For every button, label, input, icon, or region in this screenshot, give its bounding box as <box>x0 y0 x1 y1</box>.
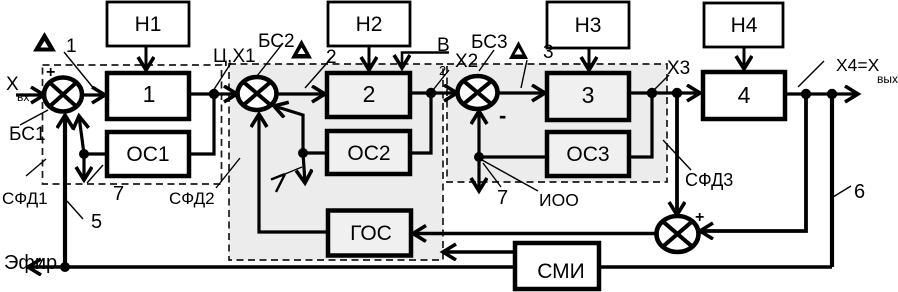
svg-text:2: 2 <box>363 81 376 107</box>
svg-text:1: 1 <box>66 36 77 57</box>
svg-text:Н3: Н3 <box>575 14 602 37</box>
svg-text:1: 1 <box>143 81 156 107</box>
svg-text:+: + <box>695 209 704 226</box>
svg-text:2: 2 <box>439 63 446 78</box>
svg-text:ОС1: ОС1 <box>126 143 169 166</box>
svg-text:7: 7 <box>497 187 508 209</box>
svg-text:Х2: Х2 <box>455 51 478 72</box>
svg-text:Эфир: Эфир <box>4 252 57 274</box>
svg-text:БС3: БС3 <box>471 32 508 53</box>
svg-text:+: + <box>46 64 55 81</box>
svg-text:вх: вх <box>17 90 29 104</box>
svg-text:5: 5 <box>91 211 102 233</box>
svg-text:4: 4 <box>738 82 751 108</box>
svg-text:СФД2: СФД2 <box>169 189 215 208</box>
svg-text:БС1: БС1 <box>9 124 46 145</box>
svg-text:В: В <box>437 35 450 56</box>
svg-text:ОС3: ОС3 <box>566 143 609 166</box>
svg-text:Н4: Н4 <box>731 14 758 37</box>
svg-text:-: - <box>499 103 506 128</box>
svg-text:Н2: Н2 <box>356 13 383 36</box>
svg-text:Н1: Н1 <box>135 13 162 36</box>
svg-text:СФД1: СФД1 <box>2 189 48 208</box>
svg-text:СМИ: СМИ <box>537 260 585 283</box>
svg-text:3: 3 <box>543 42 554 63</box>
svg-text:X4=Х: X4=Х <box>836 55 880 75</box>
svg-text:3: 3 <box>582 82 595 108</box>
svg-text:вых: вых <box>877 72 898 86</box>
svg-text:Х3: Х3 <box>667 58 690 79</box>
svg-text:СФД3: СФД3 <box>685 170 733 190</box>
svg-text:БС2: БС2 <box>258 31 295 52</box>
svg-text:ГОС: ГОС <box>350 222 392 245</box>
svg-text:7: 7 <box>113 183 124 205</box>
svg-text:ИОО: ИОО <box>539 190 579 210</box>
svg-text:Ц,Х1: Ц,Х1 <box>213 46 256 67</box>
svg-text:2: 2 <box>326 47 337 68</box>
svg-text:ОС2: ОС2 <box>347 142 390 165</box>
svg-text:6: 6 <box>854 181 865 203</box>
